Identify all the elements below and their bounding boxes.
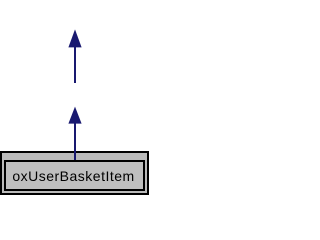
gray footer strip with black frame (0, 151, 149, 195)
shaft B (74, 123, 76, 160)
arrowhead A (68, 29, 81, 47)
shaft A (74, 47, 76, 83)
arrowhead B (68, 107, 81, 124)
wire: inheritance arrow A (top) (68, 29, 81, 83)
node oxUserBasketItem (4, 160, 145, 191)
wire: inheritance arrow B (middle) (68, 107, 81, 160)
